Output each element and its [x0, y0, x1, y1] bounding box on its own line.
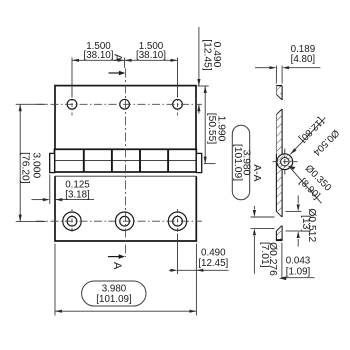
section arrow top A — [109, 54, 126, 75]
hole top 2 — [120, 99, 130, 109]
lower leaf plate — [55, 176, 196, 241]
dimension dia 0.512 countersink — [286, 196, 302, 247]
dimension 1.990 — [204, 86, 216, 164]
leaf bar hatched segments — [276, 86, 282, 94]
barrel crosshair — [273, 149, 298, 175]
svg-text:[3.18]: [3.18] — [65, 189, 90, 200]
svg-text:[76.20]: [76.20] — [20, 152, 31, 184]
dimension dia 0.276 through hole — [251, 206, 275, 274]
bottom hole 3 vertical centermark — [177, 209, 179, 234]
bar outline — [276, 86, 283, 241]
dimension 0.189 thickness — [255, 66, 320, 84]
dimension 0.043 — [282, 243, 315, 278]
bottom hole 1 vertical centermark — [71, 209, 73, 234]
countersunk hole bottom 1 — [63, 212, 81, 230]
svg-text:[101.09]: [101.09] — [232, 144, 243, 181]
svg-text:0.490: 0.490 — [201, 248, 226, 259]
reference oval 3.980 — [82, 281, 146, 306]
pin cap left — [50, 153, 55, 172]
svg-text:A-A: A-A — [251, 164, 262, 181]
svg-text:[12.45]: [12.45] — [201, 39, 212, 71]
SECTION VIEW A-A — [273, 86, 298, 241]
svg-text:[1.09]: [1.09] — [286, 267, 311, 278]
dimension dia 0.350 pin hole — [289, 166, 322, 203]
knuckle midline — [55, 160, 197, 162]
hole 3 vertical centermark — [177, 94, 179, 116]
pin cap right — [196, 153, 201, 172]
knuckle separator 4 — [167, 149, 169, 172]
dimension 0.125 pin protrusion — [32, 175, 95, 205]
pin hole — [281, 158, 289, 166]
barrel outer — [277, 154, 293, 170]
dimension 3.980 bottom overall width — [55, 244, 196, 316]
svg-text:[13]: [13] — [300, 215, 311, 232]
centerlines — [36, 69, 202, 258]
dimension dia 0.504 barrel — [290, 118, 325, 155]
svg-text:[38.10]: [38.10] — [136, 50, 166, 61]
svg-text:[4.80]: [4.80] — [291, 54, 316, 65]
top countersunk hole section — [276, 94, 282, 114]
countersink section — [276, 211, 282, 231]
dimension 0.490 bottom — [169, 234, 229, 296]
section cutting line A-A — [125, 69, 127, 258]
FRONT VIEW — [50, 86, 202, 241]
top leaf plate — [55, 86, 196, 150]
hole top 3 — [173, 99, 183, 109]
svg-text:[50.55]: [50.55] — [206, 113, 217, 145]
svg-text:A: A — [112, 54, 124, 62]
svg-text:A: A — [111, 262, 123, 270]
dimension 1.500 first — [72, 58, 178, 98]
countersunk hole bottom 3 — [168, 212, 186, 230]
knuckle band — [55, 149, 197, 172]
reference oval 3.980 vertical — [232, 125, 249, 200]
top hole row centerline — [36, 103, 202, 105]
hole 1 vertical centermark — [71, 94, 73, 116]
dimension 3.000 left — [16, 104, 46, 221]
hole top 1 — [67, 99, 77, 109]
knuckle separator 3 — [139, 149, 141, 172]
bottom hole row centerline — [36, 220, 202, 222]
knuckle separator 1 — [83, 149, 85, 172]
countersunk hole bottom 2 — [115, 212, 133, 230]
knuckle separator 2 — [111, 149, 113, 172]
svg-text:[12.45]: [12.45] — [198, 258, 228, 269]
svg-text:[101.09]: [101.09] — [96, 294, 132, 305]
section arrow bottom A — [108, 254, 125, 270]
dimension 0.490 top right — [198, 27, 209, 114]
lower leaf top edge — [55, 175, 196, 177]
svg-text:0.043: 0.043 — [286, 255, 311, 266]
svg-text:3.000: 3.000 — [30, 152, 41, 178]
svg-text:[38.10]: [38.10] — [84, 50, 114, 61]
svg-text:[7.01]: [7.01] — [259, 242, 270, 268]
